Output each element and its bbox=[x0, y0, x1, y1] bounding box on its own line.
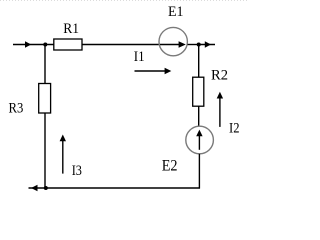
canvas top dotted border bbox=[0, 0, 248, 2]
svg-text:R3: R3 bbox=[9, 100, 24, 116]
resistor R1 bbox=[54, 39, 82, 50]
source E1 circle bbox=[159, 27, 187, 55]
arrowhead inside E1 bbox=[179, 41, 186, 48]
svg-text:E1: E1 bbox=[168, 4, 184, 20]
wire node B down to R2 bbox=[198, 45, 200, 78]
wire R3 down to bottom bbox=[44, 113, 46, 188]
bottom wire bbox=[29, 187, 201, 189]
arrowhead bottom output current bbox=[31, 185, 38, 191]
wire input left bbox=[13, 44, 54, 46]
wire E1 to node B bbox=[188, 44, 199, 46]
svg-text:R2: R2 bbox=[211, 67, 228, 83]
arrow current I1 bbox=[135, 70, 167, 72]
resistor R2 bbox=[193, 77, 204, 106]
node A junction dot bbox=[43, 43, 47, 47]
arrow current I2 bbox=[219, 97, 221, 127]
wire E2 down to bottom bbox=[198, 154, 200, 189]
resistor R3 bbox=[39, 84, 51, 114]
arrowhead input current bbox=[25, 41, 31, 47]
arrowhead output current bbox=[205, 41, 211, 47]
wire node B output stub bbox=[199, 44, 215, 46]
arrowhead inside E2 bbox=[198, 135, 200, 150]
source E2 circle bbox=[186, 126, 214, 154]
node B junction dot bbox=[197, 43, 201, 47]
wire node A down to R3 bbox=[44, 45, 46, 84]
node C junction dot bbox=[44, 186, 48, 190]
svg-text:I3: I3 bbox=[72, 163, 82, 179]
svg-text:R1: R1 bbox=[63, 21, 79, 37]
svg-text:I1: I1 bbox=[134, 49, 145, 65]
svg-text:E2: E2 bbox=[162, 157, 178, 174]
wire R2 to E2 bbox=[198, 106, 200, 126]
arrow current I3 bbox=[62, 139, 64, 173]
wire R1 to E1 bbox=[82, 44, 180, 46]
svg-text:I2: I2 bbox=[229, 121, 240, 137]
